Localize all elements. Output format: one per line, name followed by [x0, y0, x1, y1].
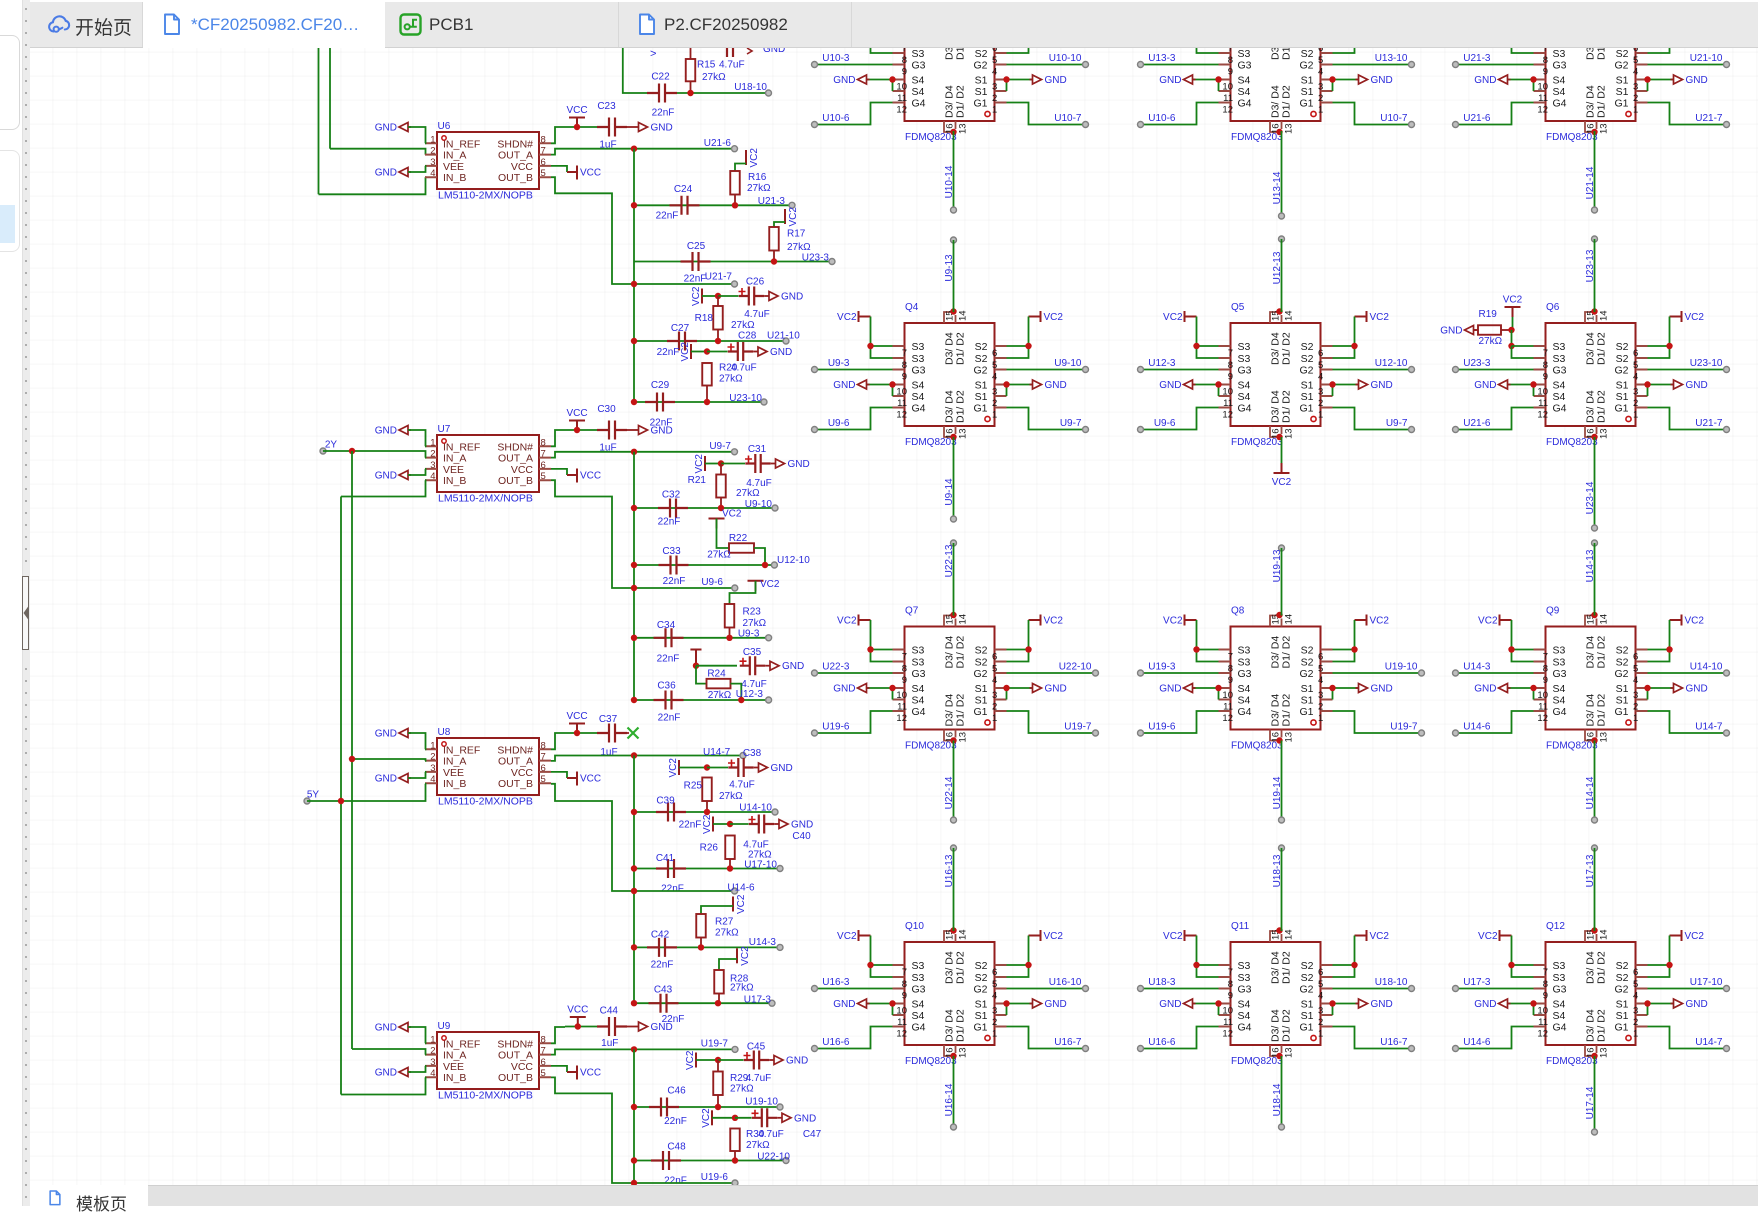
svg-text:U21-7: U21-7: [1695, 418, 1723, 429]
node U17-3: [1453, 986, 1459, 992]
svg-text:U16-7: U16-7: [1380, 1037, 1408, 1048]
svg-text:U23-13: U23-13: [1585, 249, 1596, 282]
svg-text:13: 13: [1284, 428, 1295, 439]
svg-text:12: 12: [1222, 713, 1233, 724]
wire vertical OUT_A U7: [633, 452, 635, 700]
svg-text:9: 9: [1543, 67, 1548, 78]
junction: [718, 460, 724, 466]
svg-text:S3: S3: [1238, 657, 1251, 669]
svg-text:VCC: VCC: [566, 408, 587, 419]
svg-text:OUT_A: OUT_A: [498, 150, 533, 162]
svg-text:13: 13: [1599, 1047, 1610, 1058]
svg-text:7: 7: [1543, 652, 1548, 663]
wire junction to cap to GND: [707, 351, 728, 353]
wire C34 row: [634, 637, 769, 639]
svg-text:C36: C36: [657, 681, 676, 692]
svg-text:G4: G4: [1238, 403, 1252, 415]
svg-text:10: 10: [896, 82, 907, 93]
svg-text:U21-14: U21-14: [1585, 166, 1596, 199]
svg-text:22nF: 22nF: [657, 347, 680, 358]
svg-text:U9-14: U9-14: [944, 478, 955, 506]
wire gate G1 net U9-7: [1333, 408, 1412, 430]
wire gate G4 net U19-6: [1141, 711, 1219, 733]
node U19-10: [777, 1104, 783, 1110]
svg-text:D1/ D2: D1/ D2: [1596, 1009, 1608, 1042]
svg-text:4: 4: [1633, 675, 1638, 686]
capacitor C27 22nF: [667, 332, 697, 351]
node U18-14 end: [1279, 1124, 1285, 1130]
svg-text:2: 2: [1318, 702, 1323, 713]
svg-text:G1: G1: [1299, 403, 1313, 415]
svg-text:U17-10: U17-10: [744, 860, 777, 871]
svg-text:S4: S4: [912, 75, 925, 87]
svg-text:1: 1: [1318, 105, 1323, 116]
wire gate G4 net U19-6: [815, 711, 893, 733]
transistor FDMQ8203 (top row, partially hidden): [1534, 5, 1648, 134]
wire gate G4 net U10-6: [815, 103, 893, 125]
capacitor C33 22nF: [659, 556, 689, 575]
power flag VC2 left: [1185, 311, 1197, 322]
resistor R15 27k: [686, 59, 696, 81]
svg-text:U22-10: U22-10: [757, 1152, 790, 1163]
svg-text:D1/ D2: D1/ D2: [955, 694, 967, 727]
resistor R28 27k: [714, 970, 724, 994]
svg-text:U12-3: U12-3: [1148, 358, 1176, 369]
svg-text:S4: S4: [1553, 75, 1566, 87]
node U18-10: [766, 90, 772, 96]
svg-text:S3: S3: [1238, 960, 1251, 972]
wire VC2 to S2 pins 6,5: [1648, 936, 1670, 966]
node U14-13 start: [1592, 540, 1598, 546]
wire VC2 to S3 pins 7,8: [1512, 936, 1534, 966]
power flag VCC above C23: [569, 118, 585, 128]
node U16-7: [1409, 1046, 1415, 1052]
svg-text:S1: S1: [1616, 695, 1629, 707]
svg-text:S4: S4: [912, 391, 925, 403]
svg-text:U8: U8: [438, 727, 451, 738]
svg-text:R18: R18: [695, 313, 714, 324]
svg-text:C37: C37: [599, 714, 618, 725]
svg-text:D1/ D2: D1/ D2: [1281, 390, 1293, 423]
svg-text:C43: C43: [654, 985, 673, 996]
svg-text:U19-6: U19-6: [822, 722, 850, 733]
wire C27 row: [634, 340, 786, 342]
power flag VC2 left: [1500, 6, 1512, 17]
wire VC2 to S3 pins 7,8: [1197, 317, 1219, 347]
svg-text:U19-10: U19-10: [1385, 662, 1418, 673]
svg-text:12: 12: [1537, 105, 1548, 116]
svg-text:FDMQ8203: FDMQ8203: [1231, 437, 1283, 448]
svg-text:8: 8: [1228, 664, 1233, 675]
svg-text:U9-7: U9-7: [1060, 418, 1082, 429]
bottom sheet-tab bar: [30, 1185, 1758, 1206]
wire gate G2 net U23-10: [1648, 369, 1727, 371]
node U14-7: [1724, 730, 1730, 736]
svg-text:OUT_B: OUT_B: [498, 778, 533, 790]
svg-text:D1/ D2: D1/ D2: [1281, 85, 1293, 118]
wire VC2 to junction: [713, 823, 730, 825]
svg-text:GND: GND: [651, 123, 673, 134]
svg-text:VEE: VEE: [443, 1061, 464, 1073]
wire gate G1 net U14-7: [1648, 1027, 1727, 1049]
junction R22 drop: [762, 562, 768, 568]
node U14-10: [1724, 670, 1730, 676]
ground flag at U9 pin1 IN_REF: [399, 1023, 411, 1032]
wire VC2 stem to R22: [717, 519, 730, 549]
junction 2Y vertical: [349, 448, 355, 454]
svg-text:C24: C24: [674, 184, 693, 195]
junction: [1351, 343, 1357, 349]
junction: [867, 343, 873, 349]
svg-text:U18-14: U18-14: [1272, 1083, 1283, 1116]
capacitor C37 1uF: [597, 724, 627, 743]
svg-text:3: 3: [992, 1006, 997, 1017]
node U13-10: [1409, 62, 1415, 68]
svg-text:C42: C42: [651, 930, 670, 941]
svg-text:6: 6: [1633, 48, 1638, 54]
svg-text:7: 7: [1543, 967, 1548, 978]
power flag VC2 right: [1670, 615, 1682, 626]
resistor R30 27k: [730, 1129, 740, 1152]
wire vertical IN_B bus x=341: [340, 497, 342, 1095]
wire junction to cap to GND: [721, 463, 745, 465]
svg-text:U14-7: U14-7: [703, 747, 731, 758]
svg-text:VC2: VC2: [1503, 295, 1523, 306]
svg-text:VCC: VCC: [511, 464, 534, 476]
svg-text:4: 4: [1633, 991, 1638, 1002]
node U21-7: [1724, 122, 1730, 128]
wire vertical OUT_A U6: [633, 149, 635, 402]
wire U7 OUT_B path: [551, 480, 735, 588]
svg-text:11: 11: [1223, 93, 1233, 104]
svg-text:22nF: 22nF: [658, 517, 681, 528]
svg-text:7: 7: [1228, 652, 1233, 663]
svg-text:GND: GND: [375, 123, 397, 134]
svg-text:12: 12: [1222, 1029, 1233, 1040]
ground flag at U6 pin1 IN_REF: [399, 123, 411, 132]
ground flag right (S1 pins 3,2): [1333, 384, 1359, 386]
svg-text:S4: S4: [1553, 391, 1566, 403]
svg-text:S2: S2: [1301, 960, 1314, 972]
svg-text:9: 9: [1228, 991, 1233, 1002]
svg-text:U23-3: U23-3: [802, 253, 830, 264]
svg-text:8: 8: [1543, 979, 1548, 990]
node U10-3: [812, 62, 818, 68]
svg-text:G2: G2: [1614, 365, 1628, 377]
svg-text:27kΩ: 27kΩ: [736, 488, 760, 499]
transistor Q7 FDMQ8203: [893, 614, 1007, 743]
svg-text:22nF: 22nF: [656, 211, 679, 222]
svg-text:1: 1: [1318, 1029, 1323, 1040]
wire net U19-13: [1281, 548, 1283, 616]
power flag VC2 left: [859, 6, 871, 17]
wire gate G3 net U23-3: [1456, 369, 1534, 371]
svg-text:C41: C41: [656, 853, 675, 864]
wire VC2 stem to junction: [1512, 317, 1514, 330]
svg-text:2: 2: [1633, 702, 1638, 713]
svg-text:S3: S3: [912, 48, 925, 60]
ground flag left (S4 pins 10,11): [867, 79, 893, 81]
junction: [1666, 962, 1672, 968]
svg-text:IN_B: IN_B: [443, 172, 466, 184]
node U23-13 start: [1592, 236, 1598, 242]
wire net U21-14: [1594, 131, 1596, 210]
wire gate G2 net U9-10: [1007, 369, 1086, 371]
svg-text:S2: S2: [975, 972, 988, 984]
svg-text:S1: S1: [1616, 999, 1629, 1011]
svg-text:U9: U9: [438, 1021, 451, 1032]
wire gate G1 net U19-7: [1333, 711, 1422, 733]
svg-text:IN_A: IN_A: [443, 1050, 466, 1062]
junction top pins 15/14: [950, 308, 956, 314]
svg-text:2: 2: [430, 449, 435, 460]
svg-text:C38: C38: [743, 748, 762, 759]
node U14-6: [1453, 1046, 1459, 1052]
svg-text:G4: G4: [1238, 98, 1252, 110]
wire C33 row: [634, 564, 774, 566]
svg-text:S2: S2: [1616, 341, 1629, 353]
svg-text:U17-10: U17-10: [1690, 977, 1723, 988]
svg-text:U10-3: U10-3: [822, 53, 850, 64]
svg-text:S4: S4: [1238, 999, 1251, 1011]
svg-text:G3: G3: [912, 984, 926, 996]
svg-text:Q4: Q4: [905, 302, 919, 313]
svg-text:VC2: VC2: [749, 148, 760, 168]
wire VC2 to junction: [712, 1117, 735, 1119]
svg-text:G1: G1: [973, 1022, 987, 1034]
node U10-10: [1083, 62, 1089, 68]
op-amp U8 LM5110-2MX/NOPB gate driver: [425, 738, 551, 795]
junction bottom pins 16/13: [1591, 129, 1597, 135]
svg-text:C28: C28: [738, 331, 757, 342]
power flag VC2 right: [1029, 930, 1041, 941]
node U22-14 end: [951, 817, 957, 823]
svg-text:GND: GND: [788, 459, 810, 470]
junction top pins 15/14: [1276, 927, 1282, 933]
ground flag right (S1 pins 3,2): [1648, 687, 1674, 689]
svg-text:8: 8: [1228, 979, 1233, 990]
svg-text:Q5: Q5: [1231, 302, 1245, 313]
node U9-13 start: [951, 237, 957, 243]
junction: [1666, 38, 1672, 44]
wire vertical OUT_A U8: [633, 756, 635, 1004]
svg-text:7: 7: [1228, 48, 1233, 54]
svg-text:GND: GND: [833, 75, 855, 86]
wire gate G2 net U18-10: [1333, 988, 1412, 990]
svg-text:GND: GND: [1159, 380, 1181, 391]
svg-text:U21-10: U21-10: [767, 331, 800, 342]
svg-text:U9-13: U9-13: [944, 254, 955, 282]
svg-text:D1/ D2: D1/ D2: [1596, 694, 1608, 727]
svg-text:GND: GND: [375, 774, 397, 785]
transistor Q11 FDMQ8203: [1219, 929, 1333, 1058]
svg-text:IN_REF: IN_REF: [443, 138, 480, 150]
svg-text:8: 8: [1543, 55, 1548, 66]
wire gate G4 net U14-6: [1456, 711, 1534, 733]
svg-text:VCC: VCC: [511, 161, 534, 173]
svg-text:U12-10: U12-10: [777, 555, 810, 566]
wire VC2 to S2 pins 6,5: [1333, 620, 1355, 650]
svg-text:4: 4: [1633, 372, 1638, 383]
svg-text:U10-6: U10-6: [1148, 113, 1176, 124]
svg-text:S4: S4: [1238, 86, 1251, 98]
svg-text:4: 4: [430, 774, 435, 785]
node U18-3: [1138, 986, 1144, 992]
node U16-3: [812, 986, 818, 992]
node U21-3: [1453, 62, 1459, 68]
svg-text:10: 10: [1222, 387, 1233, 398]
svg-text:U17-13: U17-13: [1585, 854, 1596, 887]
svg-text:5: 5: [541, 1068, 546, 1079]
wire net U19-14: [1281, 741, 1283, 821]
junction C35 row: [693, 663, 699, 669]
svg-text:9: 9: [1543, 991, 1548, 1002]
svg-text:14: 14: [1599, 310, 1610, 321]
node U17-10: [1724, 986, 1730, 992]
wire 2Y to U7 IN_A: [323, 451, 426, 458]
svg-text:VCC: VCC: [580, 471, 601, 482]
svg-text:VC2: VC2: [1478, 616, 1498, 627]
wire partial top-left verticals into U6 inputs: [329, 48, 331, 149]
wire net U23-13: [1594, 239, 1596, 312]
svg-text:C26: C26: [746, 277, 765, 288]
svg-text:4.7uF: 4.7uF: [731, 363, 757, 374]
power flag VC2 left: [859, 311, 871, 322]
wire VC2 to R16: [735, 164, 746, 172]
svg-text:S1: S1: [975, 683, 988, 695]
svg-text:13: 13: [958, 123, 969, 134]
svg-text:U18-10: U18-10: [734, 82, 767, 93]
svg-text:27kΩ: 27kΩ: [730, 983, 754, 994]
wire gate G2 net U12-10: [1333, 369, 1412, 371]
node U17-13 start: [1592, 845, 1598, 851]
svg-text:C33: C33: [662, 546, 681, 557]
svg-text:C47: C47: [803, 1129, 822, 1140]
svg-text:G1: G1: [1614, 1022, 1628, 1034]
svg-text:7: 7: [902, 652, 907, 663]
wire gate G2 net U10-10: [1007, 64, 1086, 66]
wire gate G2 net U16-10: [1007, 988, 1086, 990]
svg-text:GND: GND: [1686, 999, 1708, 1010]
svg-text:D1/ D2: D1/ D2: [955, 48, 967, 60]
svg-text:8: 8: [541, 740, 546, 751]
power flag VC2 right: [1029, 311, 1041, 322]
junction bottom pins 16/13: [950, 434, 956, 440]
wire junction to cap to GND: [718, 1059, 744, 1061]
wire C48 row: [634, 1160, 786, 1162]
wire net U12-13: [1281, 239, 1283, 312]
ground flag left (S4 pins 10,11): [1508, 384, 1534, 386]
svg-text:LM5110-2MX/NOPB: LM5110-2MX/NOPB: [438, 796, 533, 808]
partial rounded panel outline top-left: [0, 35, 20, 130]
wire C46 row: [634, 1106, 780, 1108]
svg-text:13: 13: [1284, 732, 1295, 743]
svg-text:D1/ D2: D1/ D2: [1596, 48, 1608, 60]
svg-text:11: 11: [1538, 1017, 1548, 1028]
svg-text:S3: S3: [912, 353, 925, 365]
power flag VC2 left: [1500, 615, 1512, 626]
svg-text:VC2: VC2: [1044, 931, 1064, 942]
transistor Q10 FDMQ8203: [893, 929, 1007, 1058]
svg-text:G1: G1: [1614, 98, 1628, 110]
svg-text:U19-3: U19-3: [1148, 662, 1176, 673]
power flag VC2 (rotated): [690, 344, 692, 359]
splitter strip with dots: [22, 0, 31, 1206]
node U12-3: [1138, 367, 1144, 373]
svg-text:Q11: Q11: [1231, 921, 1250, 932]
node U16-6: [812, 1046, 818, 1052]
svg-text:U21-3: U21-3: [1463, 53, 1491, 64]
svg-text:22nF: 22nF: [663, 576, 686, 587]
svg-text:2: 2: [1633, 93, 1638, 104]
wire net U22-13: [953, 543, 955, 616]
node U16-13 start: [951, 845, 957, 851]
svg-text:G2: G2: [1299, 60, 1313, 72]
svg-text:U10-10: U10-10: [1049, 53, 1082, 64]
svg-text:D1/ D2: D1/ D2: [955, 1009, 967, 1042]
svg-text:7: 7: [541, 752, 546, 763]
svg-text:8: 8: [902, 360, 907, 371]
svg-text:G3: G3: [1238, 668, 1252, 680]
wire C36 row: [634, 699, 769, 701]
svg-text:13: 13: [958, 732, 969, 743]
svg-text:3: 3: [1318, 387, 1323, 398]
svg-text:U9-7: U9-7: [709, 441, 731, 452]
svg-text:VCC: VCC: [511, 767, 534, 779]
junction: [1193, 38, 1199, 44]
svg-text:VC2: VC2: [1163, 616, 1183, 627]
svg-text:2: 2: [430, 752, 435, 763]
wire U8 OUT_B path: [551, 784, 735, 891]
junction: [1666, 343, 1672, 349]
wire VC2 to S2 pins 6,5: [1648, 317, 1670, 347]
svg-text:GND: GND: [375, 729, 397, 740]
wire net U22-14: [953, 741, 955, 821]
wire VC2 to S2 pins 6,5: [1007, 936, 1029, 966]
svg-text:S1: S1: [1301, 1010, 1314, 1022]
power flag VC2 above R22: [709, 519, 725, 529]
svg-text:C22: C22: [651, 72, 670, 83]
resistor R29 27k: [713, 1072, 723, 1096]
svg-text:VEE: VEE: [443, 464, 464, 476]
wire VC2 to S3 pins 7,8: [1197, 620, 1219, 650]
svg-text:C32: C32: [662, 490, 681, 501]
svg-text:5: 5: [1633, 664, 1638, 675]
svg-text:S1: S1: [975, 391, 988, 403]
svg-text:OUT_A: OUT_A: [498, 453, 533, 465]
wire C25 row: [634, 261, 832, 263]
svg-text:13: 13: [958, 1047, 969, 1058]
svg-text:GND: GND: [781, 292, 803, 303]
svg-text:8: 8: [541, 437, 546, 448]
svg-text:FDMQ8203: FDMQ8203: [1546, 1056, 1598, 1067]
svg-text:LM5110-2MX/NOPB: LM5110-2MX/NOPB: [438, 190, 533, 202]
svg-text:S1: S1: [1616, 391, 1629, 403]
svg-text:1: 1: [1318, 410, 1323, 421]
node U14-3: [1453, 670, 1459, 676]
svg-text:GND: GND: [1045, 684, 1067, 695]
svg-text:22nF: 22nF: [679, 820, 702, 831]
junction U8 IN_A: [349, 756, 355, 762]
svg-text:7: 7: [1228, 967, 1233, 978]
junction: [704, 764, 710, 770]
svg-text:U9-10: U9-10: [745, 499, 773, 510]
svg-text:11: 11: [1223, 702, 1233, 713]
svg-text:VC2: VC2: [1163, 312, 1183, 323]
wire gate G3 net U14-3: [1456, 672, 1534, 674]
svg-text:S4: S4: [1553, 695, 1566, 707]
wire vertical OUT_A U9: [633, 1049, 635, 1185]
